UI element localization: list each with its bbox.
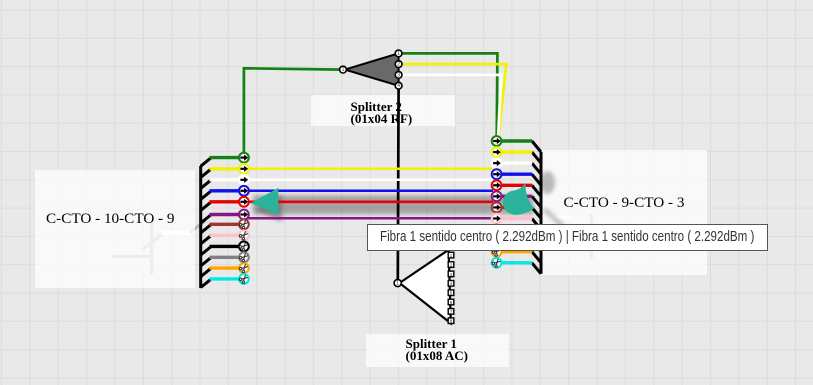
right fiber 1 green connector (492, 136, 502, 146)
left fiber 6 violet connector (239, 210, 249, 220)
splice blue: left fiber 4 to right fiber 6 (249, 190, 493, 193)
map street vertical (right) (590, 214, 593, 259)
left cable branch brown (201, 224, 212, 233)
cable C-CTO-10 trunk (199, 166, 202, 288)
splice white: left fiber 3 to right fiber 5 (249, 179, 493, 182)
right cable branch red (532, 185, 541, 196)
right fiber 6 violet stub (502, 195, 532, 198)
left cable branch aqua (201, 279, 212, 288)
left cable branch yellow (201, 169, 212, 178)
right fiber 9 black connector (492, 225, 502, 235)
right fiber 4 blue connector (492, 169, 502, 179)
left fiber 11 orange stub (210, 266, 239, 269)
svg-text:1: 1 (397, 51, 400, 57)
left fiber 9 black stub (210, 245, 239, 248)
svg-text:7: 7 (450, 309, 453, 314)
left fiber 2 yellow connector (239, 164, 249, 174)
splitter U2 output port 4 (395, 82, 402, 89)
right cable branch orange (532, 252, 541, 263)
shadow of direction triangle (254, 195, 282, 222)
direction balloon (teal) (503, 183, 535, 215)
left cable branch orange (201, 268, 212, 277)
wire green: left fiber 1 to splitter 2 input (244, 68, 343, 157)
left fiber 6 violet stub (210, 213, 239, 216)
svg-text:3: 3 (397, 72, 400, 78)
right cable branch white (532, 163, 541, 174)
left fiber 7 brown connector (239, 219, 249, 229)
left cable branch blue (201, 191, 212, 200)
wire white: splitter 2 out 3 to right fiber 3 (399, 75, 502, 163)
left cable branch green (201, 158, 212, 167)
right fiber 4 blue stub (502, 172, 532, 175)
left fiber 5 red connector (239, 197, 249, 207)
label Splitter 2 (01x04 RF) (351, 101, 413, 125)
left fiber 4 blue stub (210, 189, 239, 192)
left fiber 1 green connector (239, 153, 249, 163)
shadow of direction balloon (540, 171, 563, 227)
left fiber 3 white connector (239, 175, 249, 185)
svg-text:2: 2 (397, 62, 400, 68)
svg-text:8: 8 (450, 319, 453, 324)
left fiber 12 aqua connector (239, 274, 249, 284)
wire green: splitter 2 out 1 to right fiber 1 (399, 53, 498, 141)
svg-text:2: 2 (450, 263, 453, 268)
right fiber 6 violet connector (492, 191, 502, 201)
svg-text:1: 1 (342, 67, 345, 73)
label C-CTO - 9-CTO - 3 (564, 194, 685, 212)
right cable branch green (532, 141, 541, 152)
left cable branch pink (201, 235, 212, 244)
right fiber 9 black stub (502, 228, 532, 231)
right fiber 5 red connector (492, 180, 502, 190)
svg-text:4: 4 (397, 83, 400, 89)
right fiber 12 aqua connector (492, 258, 502, 268)
left fiber 11 orange connector (239, 263, 249, 273)
left fiber 5 red stub (210, 200, 239, 203)
left fiber 8 pink stub (210, 234, 239, 237)
left fiber 10 slate connector (239, 252, 249, 262)
right fiber 3 white connector (492, 158, 502, 168)
svg-text:1: 1 (450, 253, 453, 258)
left cable branch black (201, 246, 212, 255)
wire yellow: splitter 2 out 2 to right fiber 2 (399, 64, 507, 152)
svg-text:1: 1 (396, 280, 399, 286)
cable C-CTO-9 trunk (540, 152, 543, 274)
tooltip Fibra 1 sentido centro (367, 224, 768, 251)
left fiber 8 pink connector (239, 230, 249, 240)
splice red: left fiber 5 to right fiber 7 (highlighted) (249, 200, 493, 203)
label C-CTO - 10-CTO - 9 (46, 210, 175, 228)
left fiber 4 blue connector (239, 186, 249, 196)
map street diagonal (left) (143, 234, 164, 250)
right fiber 3 white stub (502, 161, 532, 164)
left fiber 12 aqua stub (210, 277, 239, 280)
right fiber 8 pink connector (492, 214, 502, 224)
left fiber 3 white stub (210, 178, 239, 181)
splitter 2 label box (311, 95, 455, 126)
map street white segment (left) (162, 231, 191, 235)
map street horizontal (left) (113, 255, 152, 258)
right fiber 5 red stub (502, 184, 532, 187)
splitter U2 input port 1 (340, 66, 347, 73)
left fiber 7 brown stub (210, 223, 239, 226)
splitter U1 output port 7 (448, 309, 454, 315)
left cable branch slate (201, 257, 212, 266)
right fiber 2 yellow stub (502, 150, 532, 153)
splitter 1 label box (366, 334, 509, 367)
right fiber 10 slate stub (502, 239, 532, 242)
splitter U1 input port 1 (394, 279, 401, 286)
left cable branch red (201, 202, 212, 211)
svg-text:6: 6 (450, 300, 453, 305)
left fiber 2 yellow stub (210, 167, 239, 170)
wire black: splitter 2 out 4 to splitter 1 input (396, 86, 400, 283)
splitter U2 output port 2 (395, 61, 402, 68)
right fiber 10 slate connector (492, 236, 502, 246)
splice violet: left fiber 6 to right fiber 8 (247, 217, 491, 220)
splitter U1 output port 2 (448, 262, 454, 268)
map street diagonal upper (left) (190, 221, 206, 233)
node box C-CTO-10 (35, 170, 195, 288)
direction triangle (teal) (251, 188, 279, 215)
splice yellow: left fiber 2 to right fiber 4 (249, 168, 492, 171)
right fiber 8 pink stub (502, 217, 532, 220)
right cable branch aqua (532, 263, 541, 274)
splitter U1 body (01x08 AC) (400, 250, 451, 323)
right fiber 12 aqua stub (502, 261, 532, 264)
splitter U1 output port 6 (448, 299, 454, 305)
right fiber 7 brown connector (492, 203, 502, 213)
svg-text:3: 3 (450, 272, 453, 277)
right cable branch slate (532, 241, 541, 252)
right cable branch blue (532, 174, 541, 185)
right fiber 11 orange stub (502, 250, 532, 253)
svg-text:5: 5 (450, 291, 453, 296)
right cable branch pink (532, 219, 541, 230)
right fiber 2 yellow connector (492, 147, 502, 157)
splitter U1 output port 5 (448, 290, 454, 296)
map street vertical (left) (150, 222, 153, 274)
splitter U2 body (01x04 RF) (345, 53, 399, 86)
label Splitter 1 (01x08 AC) (406, 338, 468, 362)
splitter U1 output port 3 (448, 271, 454, 277)
right fiber 11 orange connector (492, 247, 502, 257)
splitter U1 output port 1 (448, 252, 454, 258)
svg-text:4: 4 (450, 281, 453, 286)
node box C-CTO-9 (540, 150, 707, 275)
right cable branch black (532, 230, 541, 241)
right fiber 7 brown stub (502, 206, 532, 209)
right fiber 1 green stub (502, 139, 532, 142)
splitter U2 output port 3 (395, 72, 402, 79)
left cable branch white (201, 180, 212, 189)
left fiber 1 green stub (210, 156, 239, 159)
right cable branch violet (532, 196, 541, 207)
left fiber 9 black connector (239, 241, 249, 251)
splitter U1 output port 4 (448, 281, 454, 287)
left fiber 10 slate stub (210, 256, 239, 259)
right cable branch brown (532, 207, 541, 218)
map street white segment (right) (550, 215, 570, 219)
right cable branch yellow (532, 152, 541, 163)
left cable branch violet (201, 215, 212, 224)
splitter U1 output port 8 (448, 318, 454, 324)
splitter U2 output port 1 (395, 50, 402, 57)
shadow of highlighted red fiber path (253, 195, 533, 214)
